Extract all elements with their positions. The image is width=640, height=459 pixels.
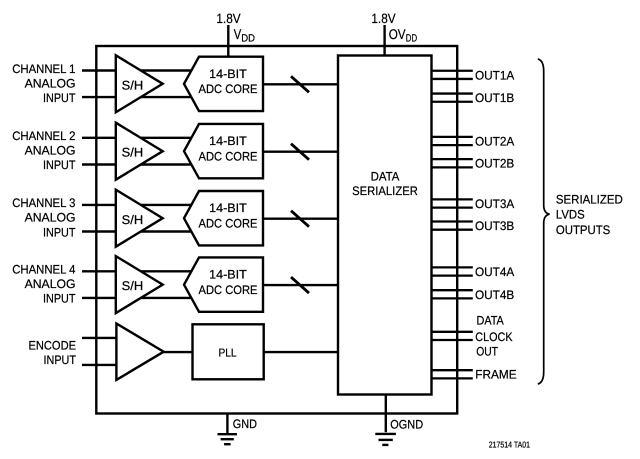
svg-text:INPUT: INPUT <box>43 91 76 105</box>
svg-text:OUT3A: OUT3A <box>475 197 515 211</box>
svg-text:FRAME: FRAME <box>475 368 516 382</box>
svg-text:14-BIT: 14-BIT <box>209 201 247 215</box>
channel 2 input wire - <box>82 163 196 165</box>
svg-text:ADC CORE: ADC CORE <box>199 283 258 297</box>
S/H amp channel 4 <box>116 256 163 313</box>
encode label <box>29 339 77 367</box>
S/H amp channel 2 <box>116 123 163 180</box>
svg-text:ANALOG: ANALOG <box>25 277 76 291</box>
svg-text:INPUT: INPUT <box>43 158 76 172</box>
bus slash channel 3 <box>291 211 309 227</box>
output pair OUT4A <box>432 267 473 275</box>
svg-text:CLOCK: CLOCK <box>475 330 513 344</box>
svg-text:ANALOG: ANALOG <box>25 76 76 90</box>
S/H amp channel 3 <box>116 190 163 247</box>
output pair OUT3A <box>432 199 473 207</box>
chip outline <box>96 46 457 414</box>
channel 4 label <box>12 263 76 306</box>
bus wire channel 1 to serializer <box>263 83 338 85</box>
output pair DATA CLOCK OUT <box>432 332 473 340</box>
output pair OUT4B <box>432 290 473 298</box>
output pair OUT1A <box>432 71 473 79</box>
svg-text:S/H: S/H <box>122 146 144 160</box>
channel 2 label <box>12 129 76 172</box>
encode buffer amp <box>116 324 163 380</box>
svg-text:ANALOG: ANALOG <box>25 211 76 225</box>
svg-text:OUTPUTS: OUTPUTS <box>556 223 610 237</box>
data serializer block <box>338 56 432 395</box>
ADC core channel 4 <box>184 257 263 311</box>
svg-text:OGND: OGND <box>390 417 423 431</box>
S/H amp channel 1 <box>116 55 163 112</box>
brace grouping LVDS outputs <box>538 59 550 384</box>
channel 1 input wire - <box>82 96 196 98</box>
svg-text:ADC CORE: ADC CORE <box>199 217 258 231</box>
svg-text:DD: DD <box>406 32 418 44</box>
channel 3 label <box>12 196 76 239</box>
label SERIALIZED LVDS OUTPUTS <box>556 192 623 237</box>
svg-text:217514 TA01: 217514 TA01 <box>489 440 530 450</box>
svg-text:14-BIT: 14-BIT <box>209 67 247 81</box>
svg-text:PLL: PLL <box>219 347 238 359</box>
svg-text:S/H: S/H <box>122 213 144 227</box>
wire GND <box>226 414 228 434</box>
svg-text:DATA: DATA <box>371 169 400 183</box>
PLL block <box>193 324 264 379</box>
bus slash channel 2 <box>291 144 309 160</box>
svg-text:SERIALIZED: SERIALIZED <box>556 192 623 206</box>
svg-text:OV: OV <box>389 26 406 42</box>
channel 1 label <box>12 62 76 105</box>
svg-text:CHANNEL 2: CHANNEL 2 <box>12 129 75 143</box>
svg-text:CHANNEL 3: CHANNEL 3 <box>12 196 75 210</box>
svg-text:1.8V: 1.8V <box>371 11 395 26</box>
svg-text:ENCODE: ENCODE <box>29 339 77 353</box>
svg-text:OUT1A: OUT1A <box>475 68 515 82</box>
svg-text:OUT1B: OUT1B <box>475 91 514 105</box>
svg-text:1.8V: 1.8V <box>216 11 240 26</box>
bus wire channel 3 to serializer <box>263 217 338 219</box>
encode input wire + <box>82 337 120 339</box>
channel 3 input wire + <box>82 204 196 206</box>
svg-text:ADC CORE: ADC CORE <box>199 150 258 164</box>
output pair FRAME <box>432 370 473 378</box>
svg-text:ANALOG: ANALOG <box>25 144 76 158</box>
svg-text:INPUT: INPUT <box>43 292 76 306</box>
svg-text:OUT3B: OUT3B <box>475 219 514 233</box>
svg-text:OUT2A: OUT2A <box>475 135 515 149</box>
ground symbol GND <box>218 434 237 444</box>
svg-text:ADC CORE: ADC CORE <box>199 82 258 96</box>
ground symbol OGND <box>375 434 396 445</box>
output pair OUT2B <box>432 159 473 167</box>
svg-text:DD: DD <box>241 32 255 44</box>
svg-text:GND: GND <box>233 417 257 431</box>
wire OVDD supply <box>383 25 385 57</box>
output pair OUT1B <box>432 94 473 102</box>
svg-text:INPUT: INPUT <box>43 225 76 239</box>
wire encode buffer to PLL <box>164 351 193 353</box>
bus wire channel 2 to serializer <box>263 150 338 152</box>
wire PLL to serializer <box>264 351 338 353</box>
channel 4 input wire - <box>82 297 196 299</box>
output pair OUT2A <box>432 137 473 145</box>
ADC core channel 3 <box>184 191 263 245</box>
wire VDD supply <box>227 25 229 58</box>
svg-text:CHANNEL 4: CHANNEL 4 <box>12 263 75 277</box>
svg-text:CHANNEL 1: CHANNEL 1 <box>12 62 75 76</box>
svg-text:OUT: OUT <box>476 345 498 359</box>
channel 1 input wire + <box>82 69 196 71</box>
bus wire channel 4 to serializer <box>263 284 338 286</box>
wire OGND <box>385 395 387 433</box>
bus slash channel 4 <box>291 277 309 293</box>
svg-text:14-BIT: 14-BIT <box>209 134 247 148</box>
svg-text:OUT4B: OUT4B <box>475 288 514 302</box>
channel 2 input wire + <box>82 137 196 139</box>
svg-text:OUT4A: OUT4A <box>475 265 515 279</box>
svg-text:S/H: S/H <box>122 78 144 92</box>
bus slash channel 1 <box>291 76 309 92</box>
encode input wire - <box>82 364 120 366</box>
channel 3 input wire - <box>82 230 196 232</box>
svg-text:OUT2B: OUT2B <box>475 157 514 171</box>
channel 4 input wire + <box>82 270 196 272</box>
svg-text:INPUT: INPUT <box>44 353 77 367</box>
svg-text:SERIALIZER: SERIALIZER <box>352 184 418 198</box>
svg-text:14-BIT: 14-BIT <box>209 268 247 282</box>
ADC core channel 1 <box>184 57 263 111</box>
svg-text:S/H: S/H <box>122 279 144 293</box>
svg-text:DATA: DATA <box>477 313 505 327</box>
svg-text:LVDS: LVDS <box>556 207 585 221</box>
label DATA CLOCK OUT <box>475 313 513 358</box>
output pair OUT3B <box>432 222 473 230</box>
ADC core channel 2 <box>184 124 263 178</box>
